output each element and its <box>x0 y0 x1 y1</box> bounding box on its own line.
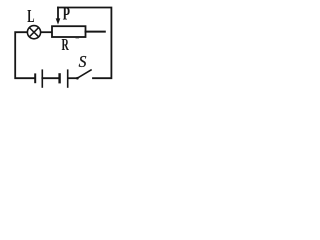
svg-text:R: R <box>62 35 70 54</box>
svg-text:L: L <box>27 6 34 26</box>
svg-text:S: S <box>79 52 87 71</box>
svg-text:P: P <box>63 4 71 24</box>
